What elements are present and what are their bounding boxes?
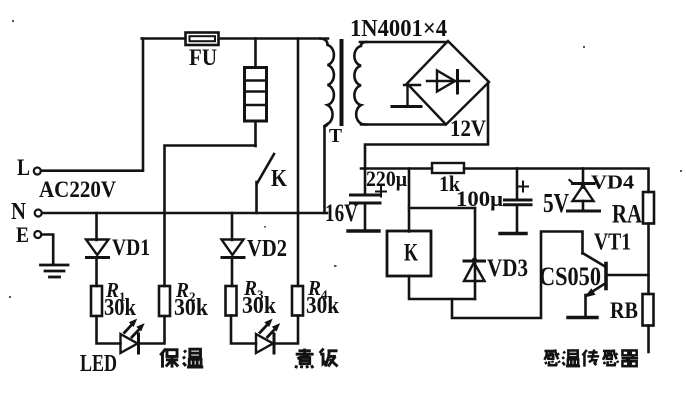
svg-text:5V: 5V — [543, 188, 569, 218]
wire relay to VD3 top — [409, 207, 475, 210]
svg-text:30k: 30k — [306, 293, 340, 319]
wire LED1 to R2 — [139, 316, 165, 344]
svg-text:220μ: 220μ — [366, 166, 407, 191]
svg-text:L: L — [17, 155, 30, 180]
wire R3 to LED2 — [231, 316, 256, 344]
svg-text:CS050: CS050 — [539, 262, 601, 291]
svg-text:K: K — [271, 166, 287, 192]
wire cook-lamp riser — [297, 39, 300, 287]
wire RA to RB — [647, 224, 650, 295]
wire relay feed drop — [408, 169, 411, 232]
resistor R3 — [226, 286, 237, 316]
svg-text:VD3: VD3 — [487, 255, 528, 282]
svg-text:AC220V: AC220V — [39, 177, 116, 202]
svg-text:T: T — [329, 125, 343, 147]
terminal E — [34, 231, 41, 238]
terminal L — [34, 168, 41, 175]
ground emitter — [568, 316, 597, 319]
transformer T primary winding — [320, 39, 334, 127]
svg-text:K: K — [404, 240, 418, 267]
svg-text:100μ: 100μ — [456, 186, 504, 211]
bridge rectifier 1N4001x4 — [392, 41, 489, 125]
wire primary bottom lead — [325, 124, 328, 213]
svg-text:VT1: VT1 — [594, 230, 631, 256]
svg-text:16V: 16V — [325, 200, 358, 227]
switch K — [257, 154, 275, 213]
wire warm-lamp feed — [165, 146, 256, 287]
label baowen 保温 — [160, 349, 178, 368]
wire relay bottom — [409, 276, 475, 299]
svg-text:RA: RA — [612, 200, 642, 229]
label ganwen sensor 感温传感器 — [544, 349, 559, 365]
fuse FU — [186, 33, 219, 46]
wire LED2 to R4 — [274, 316, 298, 344]
resistor RB — [643, 294, 654, 326]
heater element — [245, 39, 267, 147]
svg-text:E: E — [16, 222, 29, 247]
wire top live rail — [142, 37, 328, 40]
svg-text:VD2: VD2 — [247, 236, 287, 262]
resistor R4 — [292, 286, 303, 316]
diode VD1 — [86, 213, 109, 286]
diode VD2 — [222, 213, 245, 286]
LED2 — [256, 319, 280, 353]
svg-text:30k: 30k — [242, 293, 277, 319]
resistor 1k — [432, 163, 464, 173]
label zhufan 煮饭 — [296, 349, 314, 369]
svg-text:30k: 30k — [174, 295, 209, 321]
relay K coil — [387, 231, 431, 276]
svg-text:RB: RB — [610, 298, 638, 323]
wire secondary bottom lead — [361, 123, 446, 126]
transformer T secondary winding — [354, 42, 366, 125]
wire DC rail — [361, 167, 432, 170]
terminal N — [35, 210, 42, 217]
diode VD4 zener — [568, 169, 600, 212]
svg-text:VD4: VD4 — [591, 172, 634, 194]
wire L lead — [41, 39, 143, 171]
wire bridge positive drop — [365, 82, 488, 169]
capacitor C2 100u — [500, 169, 531, 234]
diode VD3 — [464, 208, 485, 299]
svg-text:FU: FU — [189, 45, 217, 70]
LED1 — [121, 319, 145, 353]
wire N rail — [42, 212, 327, 215]
capacitor C1 220u — [348, 169, 386, 232]
wire secondary top lead — [360, 41, 448, 44]
wire DC rail right part — [464, 169, 649, 193]
resistor R2 — [159, 286, 170, 316]
svg-text:LED: LED — [80, 351, 117, 377]
svg-text:12V: 12V — [450, 116, 486, 141]
svg-text:30k: 30k — [104, 295, 137, 321]
resistor R1 — [91, 286, 102, 316]
wire sensor lead — [647, 326, 650, 353]
ground earth — [41, 235, 69, 278]
transistor VT1 — [583, 253, 649, 316]
wire base link down — [452, 232, 583, 319]
resistor RA — [643, 192, 654, 224]
wire R1 to LED1 — [97, 316, 121, 344]
svg-text:VD1: VD1 — [112, 235, 150, 260]
scan specks — [9, 20, 682, 298]
transformer core — [340, 39, 344, 126]
svg-text:1N4001×4: 1N4001×4 — [350, 16, 447, 42]
